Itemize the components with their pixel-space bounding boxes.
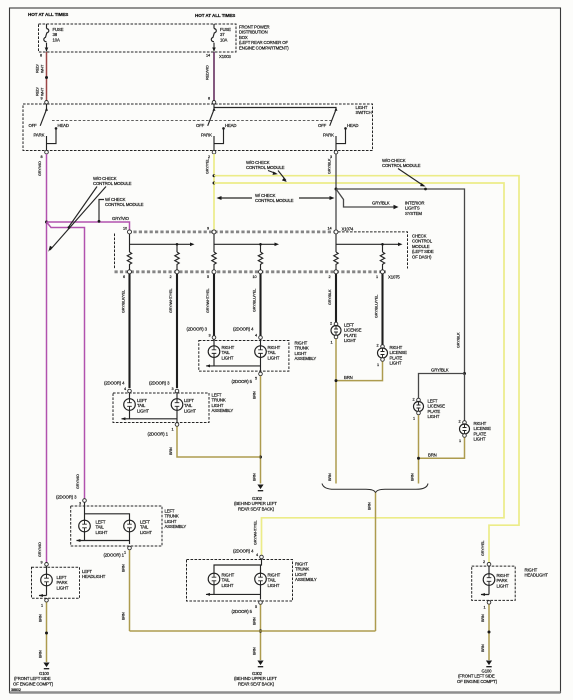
- svg-text:GRY/BLK: GRY/BLK: [328, 158, 332, 174]
- yellow wire A: w/o check path to right headlight: [214, 176, 519, 563]
- svg-text:GRY/VIO: GRY/VIO: [76, 474, 80, 489]
- svg-text:X1003: X1003: [219, 54, 231, 59]
- svg-text:2: 2: [483, 560, 485, 564]
- svg-text:2: 2: [459, 420, 461, 424]
- svg-text:REAR SEAT BACK): REAR SEAT BACK): [238, 681, 275, 686]
- svg-text:GRY/VIO: GRY/VIO: [38, 161, 42, 176]
- svg-text:LIGHT: LIGHT: [390, 361, 402, 366]
- svg-text:10A: 10A: [220, 37, 227, 42]
- left license plate light (upper): [330, 322, 362, 345]
- svg-text:WHT: WHT: [41, 87, 45, 96]
- svg-text:1: 1: [124, 551, 126, 555]
- svg-text:CONTROL MODULE: CONTROL MODULE: [105, 202, 144, 207]
- svg-text:GRY/BLK: GRY/BLK: [328, 289, 332, 305]
- internal feed wire to third switch: [214, 108, 336, 110]
- svg-text:GRY/BLU/YEL: GRY/BLU/YEL: [253, 289, 257, 312]
- svg-text:HEAD: HEAD: [347, 123, 358, 128]
- svg-text:SWITCH: SWITCH: [356, 110, 372, 115]
- svg-text:9: 9: [41, 97, 43, 101]
- wire RED/VIO from fuse 37: [213, 52, 215, 101]
- internal feed: [214, 559, 262, 574]
- input 3 internals: [335, 234, 337, 252]
- wire GRY/BLK from switch 3: [335, 154, 337, 230]
- rear ground collector wire: [130, 630, 376, 632]
- svg-text:PARK: PARK: [201, 133, 212, 138]
- left trunk light assembly (upper): [104, 380, 233, 436]
- svg-text:GRY/WHT/YEL: GRY/WHT/YEL: [169, 289, 173, 313]
- svg-text:(2DOOR) 3: (2DOOR) 3: [56, 495, 77, 500]
- svg-text:1: 1: [172, 428, 174, 432]
- svg-text:1: 1: [376, 275, 378, 279]
- svg-text:HEAD: HEAD: [225, 123, 236, 128]
- svg-text:RED/: RED/: [36, 86, 40, 96]
- svg-text:LIGHT: LIGHT: [268, 355, 280, 360]
- wire GRY/VIO branch to check module pin 10: [47, 222, 130, 230]
- internal ground wire: [206, 584, 261, 600]
- svg-text:OFF: OFF: [196, 123, 205, 128]
- leader to violet branch dot: [69, 187, 97, 227]
- svg-text:5: 5: [207, 275, 209, 279]
- input 2 internals: [213, 234, 215, 252]
- svg-text:9: 9: [41, 561, 43, 565]
- svg-text:3: 3: [172, 387, 174, 391]
- right license plate light (upper): [377, 344, 408, 368]
- svg-text:14: 14: [206, 54, 210, 58]
- right tail light 1: [208, 573, 220, 585]
- fuse F38: [44, 24, 64, 52]
- gray wire w/o check path to license lights: [336, 189, 465, 374]
- wire GRY/BLU/YEL: [259, 274, 261, 336]
- svg-text:10: 10: [123, 227, 127, 231]
- svg-text:CONTROL MODULE: CONTROL MODULE: [255, 198, 294, 203]
- switch 3 (right): [318, 107, 358, 159]
- svg-text:OF ENGINE COMP'T): OF ENGINE COMP'T): [457, 679, 498, 684]
- svg-text:1: 1: [41, 604, 43, 608]
- svg-text:GRY/VIO: GRY/VIO: [112, 216, 130, 221]
- wire BRN lower-right trunk to G302: [260, 605, 262, 661]
- wire BRN upper license grounds: [336, 362, 383, 381]
- switch 2 (middle): [196, 97, 236, 160]
- wire GRY/BLU/YEL to right license: [381, 274, 383, 345]
- fuse box (front power distribution box): [39, 24, 237, 52]
- svg-text:LIGHT: LIGHT: [428, 414, 440, 419]
- svg-text:5: 5: [255, 377, 257, 381]
- wire RED/WHT from fuse 38: [46, 52, 48, 101]
- svg-text:1: 1: [413, 417, 415, 421]
- right tail light 2: [260, 340, 262, 347]
- svg-text:OF DASH): OF DASH): [412, 254, 432, 259]
- top bus: [128, 230, 334, 233]
- svg-text:CONTROL MODULE: CONTROL MODULE: [246, 165, 285, 170]
- wire GRY/WHT/YEL 2: [213, 274, 215, 336]
- svg-text:RED/: RED/: [36, 63, 40, 73]
- svg-text:BRN: BRN: [344, 375, 353, 380]
- right trunk light assembly (upper): [187, 327, 317, 385]
- svg-text:BRN: BRN: [253, 391, 257, 399]
- svg-text:GRY/WHT/YEL: GRY/WHT/YEL: [254, 521, 258, 545]
- svg-text:8: 8: [40, 54, 42, 58]
- left headlight / park light: [32, 542, 106, 607]
- violet junction: [45, 221, 48, 224]
- svg-text:GRY/YEL: GRY/YEL: [481, 541, 485, 556]
- svg-text:38802: 38802: [11, 688, 21, 692]
- fuse box label: [239, 25, 289, 51]
- svg-text:HEADLIGHT: HEADLIGHT: [525, 573, 549, 578]
- svg-text:LIGHT: LIGHT: [344, 338, 356, 343]
- right tail light 2: [255, 573, 267, 585]
- svg-text:X1074: X1074: [342, 227, 354, 232]
- svg-text:2: 2: [329, 275, 331, 279]
- left license plate light (lower): [413, 398, 446, 421]
- box: [199, 341, 289, 372]
- wire BRN left park to G100: [46, 602, 48, 662]
- svg-text:(2DOOR) 4: (2DOOR) 4: [233, 549, 254, 554]
- box: [113, 393, 209, 423]
- switch 1 (left): [29, 97, 69, 160]
- svg-text:GRY/YEL: GRY/YEL: [206, 159, 210, 174]
- internal ground wire: [206, 357, 260, 372]
- svg-text:BRN: BRN: [253, 473, 257, 481]
- internal feed: [85, 503, 130, 521]
- svg-text:1: 1: [459, 439, 461, 443]
- svg-text:BRN: BRN: [411, 473, 415, 481]
- svg-text:9: 9: [207, 227, 209, 231]
- svg-text:LIGHT: LIGHT: [268, 583, 280, 588]
- svg-text:3: 3: [79, 502, 81, 506]
- svg-text:1: 1: [484, 606, 486, 610]
- svg-text:ASSEMBLY: ASSEMBLY: [165, 524, 187, 529]
- right headlight / park light: [472, 541, 549, 610]
- svg-text:HEADLIGHT: HEADLIGHT: [82, 574, 106, 579]
- svg-text:SYSTEM: SYSTEM: [405, 211, 422, 216]
- svg-text:2: 2: [170, 275, 172, 279]
- wire BRN right park to G100: [488, 604, 490, 660]
- svg-text:(2DOOR) 3: (2DOOR) 3: [187, 327, 208, 332]
- svg-text:3: 3: [330, 155, 332, 159]
- switch gang dashed link: [52, 120, 332, 122]
- svg-text:2: 2: [208, 155, 210, 159]
- svg-text:CONTROL MODULE: CONTROL MODULE: [382, 163, 421, 168]
- svg-text:REAR SEAT BACK): REAR SEAT BACK): [238, 506, 275, 511]
- svg-text:GRY/VIO: GRY/VIO: [38, 542, 42, 557]
- bottom border thick: [10, 691, 561, 693]
- left trunk light assembly (lower): [56, 495, 186, 558]
- svg-text:8: 8: [208, 97, 210, 101]
- svg-text:14: 14: [328, 227, 332, 231]
- ground G100 (right): [486, 661, 492, 667]
- svg-text:(2DOOR) 1: (2DOOR) 1: [104, 553, 125, 558]
- light switch box: [23, 104, 373, 151]
- svg-text:2: 2: [413, 398, 415, 402]
- ground G302 (lower): [257, 661, 263, 667]
- svg-text:GRY/BLK: GRY/BLK: [372, 201, 390, 206]
- right park light bulb: [488, 566, 490, 574]
- right license plate light (lower): [459, 420, 492, 444]
- svg-text:LIGHT: LIGHT: [222, 583, 234, 588]
- right trunk light assembly (lower): [187, 521, 317, 614]
- ground G302 (upper): [257, 485, 263, 491]
- pins top: [128, 230, 132, 234]
- svg-text:LIGHT: LIGHT: [57, 585, 69, 590]
- svg-text:4: 4: [256, 553, 258, 557]
- svg-text:BRN: BRN: [122, 564, 126, 572]
- yellow wire B: w/o check path to right trunk assembly: [214, 183, 504, 556]
- svg-text:2: 2: [330, 322, 332, 326]
- svg-text:GRY/BLU/YEL: GRY/BLU/YEL: [375, 295, 379, 318]
- svg-text:ASSEMBLY: ASSEMBLY: [212, 408, 234, 413]
- svg-text:OFF: OFF: [318, 123, 327, 128]
- svg-text:BRN: BRN: [122, 612, 126, 620]
- svg-text:GRY/WHT/YEL: GRY/WHT/YEL: [206, 289, 210, 313]
- svg-text:LIGHT: LIGHT: [222, 355, 234, 360]
- leader arrow to violet main: [50, 187, 106, 251]
- svg-text:PARK: PARK: [323, 133, 334, 138]
- svg-text:BRN: BRN: [39, 614, 43, 622]
- svg-text:(2DOOR) 4: (2DOOR) 4: [233, 327, 254, 332]
- left boundary dashed: [114, 234, 116, 270]
- svg-text:BRN: BRN: [481, 614, 485, 622]
- svg-text:BRN: BRN: [253, 617, 257, 625]
- svg-text:(2DOOR) 5: (2DOOR) 5: [232, 609, 253, 614]
- svg-text:HOT AT ALL TIMES: HOT AT ALL TIMES: [28, 12, 68, 17]
- svg-text:X1075: X1075: [388, 275, 400, 280]
- wire BRN lower license grounds: [419, 438, 465, 459]
- wire BRN to G302 upper: [260, 376, 262, 484]
- svg-text:CONTROL MODULE: CONTROL MODULE: [93, 181, 132, 186]
- svg-text:BRN: BRN: [481, 644, 485, 652]
- wire BRN upper-left trunk to G302: [177, 427, 261, 458]
- box: [71, 506, 162, 546]
- svg-text:4: 4: [124, 387, 126, 391]
- right boundary dashed: [334, 232, 408, 269]
- svg-text:10: 10: [253, 275, 257, 279]
- svg-text:LIGHT: LIGHT: [497, 583, 509, 588]
- wire BRN from brace to rear ground run: [375, 493, 377, 631]
- svg-text:LIGHT: LIGHT: [96, 530, 108, 535]
- wire GRY/YEL from switch 2: [213, 154, 215, 230]
- svg-text:ASSEMBLY: ASSEMBLY: [295, 577, 317, 582]
- left park light bulb: [46, 566, 48, 575]
- svg-text:LIGHT: LIGHT: [184, 408, 196, 413]
- svg-text:(2DOOR) 5: (2DOOR) 5: [232, 379, 253, 384]
- left tail light 2: [176, 393, 178, 400]
- svg-text:GRY/BLK: GRY/BLK: [457, 332, 461, 348]
- svg-text:BRN: BRN: [253, 647, 257, 655]
- left tail light 1: [129, 393, 131, 400]
- wire GRY/VIO from switch 1: [46, 154, 48, 563]
- svg-text:BRN: BRN: [428, 453, 437, 458]
- svg-text:HOT AT ALL TIMES: HOT AT ALL TIMES: [195, 13, 235, 18]
- svg-text:4: 4: [255, 334, 257, 338]
- svg-text:1: 1: [377, 363, 379, 367]
- svg-text:ASSEMBLY: ASSEMBLY: [295, 356, 317, 361]
- svg-text:(2DOOR) 1: (2DOOR) 1: [148, 432, 169, 437]
- pins bottom: [128, 270, 132, 274]
- svg-text:LIGHT: LIGHT: [474, 437, 486, 442]
- check control module: [115, 227, 434, 280]
- svg-text:LIGHT: LIGHT: [137, 408, 149, 413]
- wire BRN lower-left trunk to G302 run: [129, 550, 131, 631]
- right tail light 1: [213, 340, 215, 347]
- svg-text:6: 6: [123, 275, 125, 279]
- svg-text:WHT: WHT: [41, 64, 45, 73]
- svg-text:1: 1: [331, 341, 333, 345]
- svg-text:GRY/BLK: GRY/BLK: [431, 368, 449, 373]
- svg-text:2: 2: [377, 344, 379, 348]
- left tail light 2: [124, 520, 136, 532]
- svg-text:OF ENGINE COMP'T): OF ENGINE COMP'T): [13, 681, 54, 686]
- svg-text:BRN: BRN: [169, 447, 173, 455]
- svg-text:BRN: BRN: [39, 650, 43, 658]
- svg-text:10A: 10A: [53, 37, 60, 42]
- svg-text:PARK: PARK: [34, 133, 45, 138]
- svg-text:(2DOOR) 4: (2DOOR) 4: [104, 380, 125, 385]
- left tail light 1: [79, 520, 91, 532]
- svg-text:LIGHT: LIGHT: [140, 530, 152, 535]
- svg-text:ENGINE COMPARTMENT): ENGINE COMPARTMENT): [239, 45, 289, 50]
- svg-text:OFF: OFF: [29, 123, 38, 128]
- box: [187, 560, 293, 602]
- svg-text:RED/VIO: RED/VIO: [206, 65, 210, 80]
- brace joining license grounds: [322, 484, 428, 493]
- wire GRY/VIO branch 2: [47, 222, 85, 499]
- wire GRY/WHT/YEL: [176, 274, 178, 388]
- internal ground wire: [122, 410, 178, 423]
- svg-text:BRN: BRN: [328, 473, 332, 481]
- svg-text:HEAD: HEAD: [58, 123, 69, 128]
- svg-text:BRN: BRN: [368, 502, 372, 510]
- branch to interior lights system: [336, 189, 394, 207]
- wire GRY/BLK to left license: [335, 274, 337, 322]
- ground G100 (left): [43, 663, 49, 669]
- input 1 internals: [129, 234, 131, 252]
- svg-text:(2DOOR) 3: (2DOOR) 3: [149, 380, 170, 385]
- svg-text:GRY/BLK/YEL: GRY/BLK/YEL: [122, 290, 126, 313]
- svg-text:8: 8: [41, 155, 43, 159]
- fuse F37: [211, 24, 231, 52]
- internal ground wire: [77, 531, 130, 544]
- svg-text:5: 5: [255, 605, 257, 609]
- wire GRY/BLK/YEL: [128, 274, 130, 388]
- svg-text:3: 3: [209, 334, 211, 338]
- bottom bus: [115, 270, 387, 273]
